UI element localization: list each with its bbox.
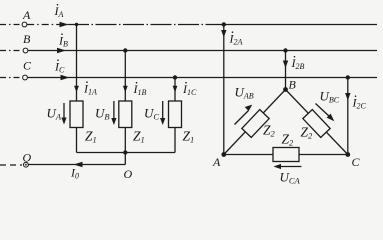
junction dot line B at drop2	[123, 48, 127, 52]
terminal C	[23, 75, 28, 80]
junction dot line B right	[283, 48, 287, 52]
dot above I1B	[136, 82, 138, 84]
dot above I1C	[185, 82, 187, 84]
wire: line A solid right part	[221, 24, 377, 26]
arrowhead current IC	[61, 75, 70, 80]
wire: drop from line B to Z1 no.2	[124, 51, 126, 102]
wire: neutral line to terminal O	[29, 164, 126, 166]
svg-text:I1A: I1A	[83, 82, 97, 97]
voltage arrow UB	[113, 101, 115, 119]
junction dot delta vertex A	[221, 152, 226, 157]
svg-text:UC: UC	[144, 106, 159, 122]
wire: drop from line B to delta vertex B	[285, 51, 287, 90]
arrowhead voltage UA	[61, 118, 66, 125]
wire: phase line C dash-dot left segment	[0, 77, 22, 79]
wire: drop from line A to Z1 no.1	[76, 25, 78, 102]
wire: Z1 no.2 bottom lead	[124, 128, 126, 153]
svg-text:UA: UA	[47, 106, 62, 122]
arrowhead voltage UC	[160, 118, 165, 125]
arrowhead current I1C	[173, 86, 178, 93]
wire: drop from line C to Z1 no.3	[174, 78, 176, 102]
svg-text:Z1: Z1	[183, 129, 195, 145]
voltage arrow UBC	[316, 104, 331, 118]
wire: line A terminal to arrow	[27, 24, 68, 26]
svg-text:B: B	[289, 78, 297, 92]
arrowhead current I2C	[345, 93, 350, 101]
wire: delta side B-C	[286, 90, 348, 155]
svg-text:I2A: I2A	[229, 32, 243, 47]
svg-text:I2C: I2C	[352, 96, 367, 111]
dot above I1A	[86, 81, 88, 83]
resistor Z1 no.3	[169, 101, 182, 128]
wire: neutral dash-dot left segment	[0, 164, 22, 166]
resistor Z2 on side A-B	[242, 110, 269, 138]
svg-text:IA: IA	[54, 4, 64, 19]
svg-text:UB: UB	[95, 106, 110, 122]
wire: Z1 no.3 bottom lead	[174, 128, 176, 153]
svg-text:I2B: I2B	[291, 56, 305, 71]
arrowhead current I2B	[283, 61, 288, 69]
dot above I2B	[294, 56, 296, 58]
arrowhead voltage UBC	[327, 114, 335, 122]
svg-text:IC: IC	[54, 60, 65, 75]
voltage arrow UC	[162, 101, 164, 119]
dot above IA	[57, 4, 59, 6]
svg-text:I0: I0	[70, 166, 79, 181]
arrowhead voltage UB	[111, 118, 116, 125]
junction dot line A right	[222, 22, 226, 26]
wire: neutral stub down	[124, 153, 126, 165]
svg-text:UAB: UAB	[235, 85, 254, 101]
arrowhead current I0 (points left)	[74, 162, 83, 167]
wire: star-point bus	[77, 152, 176, 154]
arrowhead voltage UCA	[274, 164, 282, 169]
wire: line B main	[28, 50, 377, 52]
arrowhead voltage UAB	[245, 105, 253, 111]
svg-text:UBC: UBC	[320, 89, 340, 105]
svg-text:Z1: Z1	[85, 129, 97, 145]
terminal O	[24, 162, 29, 167]
wire: phase line A dash-dot left segment	[0, 24, 22, 26]
terminal B	[23, 48, 28, 53]
wire: phase line B dash-dot left segment	[0, 50, 23, 52]
wire: line C main	[28, 77, 377, 79]
svg-text:A: A	[22, 8, 31, 22]
svg-text:UCA: UCA	[280, 170, 301, 186]
arrowhead current I1A	[74, 86, 79, 93]
voltage arrow UCA	[280, 166, 302, 168]
resistor Z2 on side B-C	[303, 110, 330, 138]
wire: drop from line A to delta vertex A	[223, 25, 225, 155]
arrowhead current I1B	[123, 86, 128, 93]
voltage arrow UAB	[235, 111, 249, 125]
junction dot line C right	[346, 75, 350, 79]
wire: delta side A-B	[224, 90, 286, 155]
terminal A	[22, 22, 27, 27]
wire: drop from line C to delta vertex C	[347, 78, 349, 155]
svg-text:O: O	[23, 151, 32, 165]
svg-text:I1C: I1C	[182, 82, 197, 97]
arrowhead current IA	[60, 22, 69, 27]
svg-text:B: B	[23, 32, 31, 46]
wire: Z1 no.1 bottom lead	[76, 128, 78, 153]
svg-text:Z2: Z2	[263, 123, 276, 139]
junction dot line C at drop3	[173, 75, 177, 79]
svg-text:I1B: I1B	[133, 82, 147, 97]
svg-text:A: A	[212, 155, 221, 169]
svg-text:C: C	[352, 155, 361, 169]
wire: line A arrow to right junction	[68, 24, 221, 26]
svg-text:O: O	[124, 167, 133, 181]
svg-text:IB: IB	[58, 34, 68, 49]
arrowhead current IB	[57, 48, 66, 53]
arrowhead current I2A	[221, 30, 226, 38]
dot above IC	[57, 59, 59, 61]
resistor Z2 on side A-C	[273, 148, 299, 162]
dot of terminal O	[25, 164, 27, 166]
junction dot star point	[123, 150, 127, 154]
dot above I2C	[355, 95, 357, 97]
wire: delta side A-C	[224, 154, 348, 156]
voltage arrow UA	[63, 103, 65, 119]
dot above I2A	[232, 31, 234, 33]
svg-text:Z2: Z2	[282, 132, 295, 148]
svg-text:C: C	[23, 59, 32, 73]
junction dot delta vertex C	[345, 152, 350, 157]
junction dot delta vertex B	[283, 87, 288, 92]
resistor Z1 no.1	[70, 101, 83, 128]
dot above IB	[61, 33, 63, 35]
svg-text:Z1: Z1	[133, 129, 145, 145]
junction dot line A at drop1	[75, 23, 78, 26]
resistor Z1 no.2	[119, 101, 132, 128]
